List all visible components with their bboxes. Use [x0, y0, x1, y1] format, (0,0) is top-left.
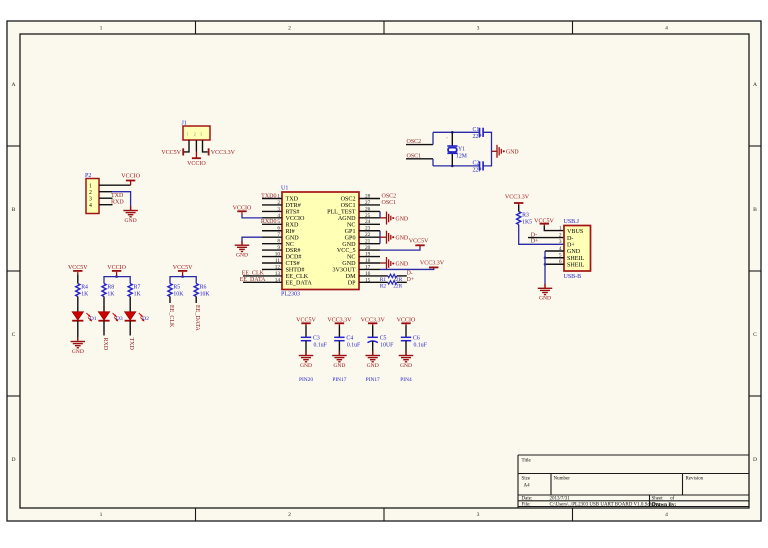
- wire R2 to D+: [397, 281, 407, 283]
- wire VCC3.3V to C4: [338, 323, 340, 325]
- svg-text:1K: 1K: [107, 291, 115, 297]
- svg-text:10UF: 10UF: [380, 343, 394, 349]
- svg-text:R5: R5: [173, 285, 180, 291]
- svg-text:10K: 10K: [200, 291, 211, 297]
- svg-text:R8: R8: [107, 285, 114, 291]
- wire R6 to EE_DATA: [195, 297, 197, 304]
- svg-text:3: 3: [277, 206, 280, 212]
- svg-text:RXD: RXD: [286, 222, 299, 228]
- power VCCIO (C6): [397, 318, 416, 324]
- wire USB pin2: [528, 237, 564, 239]
- pin 23: [359, 226, 380, 232]
- svg-text:VCC3.3V: VCC3.3V: [211, 150, 236, 156]
- svg-text:21: 21: [365, 239, 371, 245]
- svg-text:TXD: TXD: [286, 197, 299, 203]
- svg-text:VCC_5: VCC_5: [337, 248, 356, 254]
- svg-text:D+: D+: [567, 243, 575, 249]
- pin 9: [262, 245, 282, 251]
- pin 11: [262, 258, 282, 264]
- resistor R2: [380, 281, 403, 290]
- svg-text:EE_CLK: EE_CLK: [286, 274, 309, 280]
- svg-text:12: 12: [275, 264, 281, 270]
- power VCC3.3V (C4): [327, 318, 352, 324]
- svg-text:C2: C2: [473, 161, 480, 167]
- pin 27: [359, 200, 380, 206]
- svg-text:File:: File:: [522, 503, 531, 508]
- svg-text:8: 8: [277, 239, 280, 245]
- svg-text:DSR#: DSR#: [286, 248, 301, 254]
- LED D1: [72, 312, 97, 322]
- svg-text:D+: D+: [531, 239, 539, 245]
- ground (C3): [299, 351, 314, 369]
- svg-text:RTS#: RTS#: [286, 210, 300, 216]
- svg-text:PIN4: PIN4: [400, 377, 412, 383]
- op-amp U1 PL2303: [281, 186, 359, 298]
- svg-text:GND: GND: [342, 261, 356, 267]
- pin 1 (USB.J): [559, 226, 584, 235]
- power VCC3.3V (R3): [505, 194, 530, 203]
- pin 25: [359, 213, 380, 219]
- wire pin18 to ground: [380, 262, 387, 264]
- power VCC3.3V (J1): [209, 148, 236, 156]
- svg-text:1: 1: [89, 183, 92, 189]
- svg-text:GND: GND: [125, 218, 137, 224]
- wire J1 pin2 to VCCIO: [195, 140, 197, 152]
- wire R3 to D+: [519, 225, 564, 245]
- power VCC5V (pull-up branch): [173, 265, 193, 271]
- svg-text:C3: C3: [313, 336, 320, 342]
- resistor R5: [168, 284, 184, 298]
- wire VCC3.3V to C5: [372, 323, 374, 325]
- wire pins 26/25 to ground: [379, 211, 381, 217]
- svg-text:U1: U1: [281, 186, 288, 192]
- svg-text:1: 1: [100, 25, 103, 31]
- pin 6: [262, 226, 282, 232]
- svg-text:C4: C4: [346, 336, 353, 342]
- svg-text:PIN20: PIN20: [299, 377, 313, 383]
- svg-text:Title: Title: [522, 459, 532, 464]
- junction: [544, 256, 547, 259]
- wire gnd tap: [492, 150, 498, 152]
- wire J1 pin1 to VCC5V: [184, 140, 189, 152]
- wire VCC5V to R4: [77, 272, 79, 274]
- ground (U1 pins 23/22/21): [387, 231, 409, 244]
- svg-text:R2: R2: [380, 283, 387, 289]
- svg-text:RI#: RI#: [286, 229, 295, 235]
- svg-text:GND: GND: [367, 363, 379, 369]
- pin 5 (USB.J): [545, 253, 585, 262]
- pin 2: [262, 200, 282, 206]
- svg-text:Date:: Date:: [522, 497, 533, 502]
- pin 8: [262, 239, 282, 245]
- wire USB gnd rail: [544, 251, 546, 286]
- capacitor C3: [301, 336, 328, 349]
- resistor R6: [194, 284, 210, 298]
- svg-text:GND: GND: [342, 242, 356, 248]
- svg-text:22: 22: [365, 232, 371, 238]
- wire R5 to EE_CLK: [169, 297, 171, 304]
- svg-text:DM: DM: [346, 274, 356, 280]
- pin 18: [359, 258, 380, 264]
- svg-text:NC: NC: [347, 255, 355, 261]
- wire C4 to ground: [338, 341, 340, 355]
- wire R8 to D3: [103, 297, 105, 312]
- pin 22: [359, 232, 380, 238]
- svg-text:13: 13: [275, 271, 281, 277]
- wire P2 pin2 to GND: [99, 191, 112, 193]
- svg-text:PIN17: PIN17: [332, 377, 346, 383]
- wire crystal stems: [451, 132, 453, 146]
- svg-text:D1: D1: [90, 316, 97, 322]
- svg-text:EE_DATA: EE_DATA: [240, 277, 267, 283]
- pin 21: [359, 239, 380, 245]
- svg-text:20: 20: [365, 245, 371, 251]
- svg-text:OSC1: OSC1: [341, 203, 356, 209]
- svg-text:0.1uF: 0.1uF: [314, 343, 328, 349]
- junction: [181, 275, 184, 278]
- svg-text:GND: GND: [396, 262, 409, 268]
- wire VCC5V to C3: [305, 323, 307, 325]
- svg-text:10K: 10K: [173, 291, 184, 297]
- svg-text:D-: D-: [567, 236, 573, 242]
- svg-text:9: 9: [277, 245, 280, 251]
- svg-text:C:\Users\..\PL2303 USB UART BO: C:\Users\..\PL2303 USB UART BOARD V1.0.S…: [550, 503, 662, 508]
- svg-text:VCC5V: VCC5V: [161, 150, 181, 156]
- svg-text:SHEIL: SHEIL: [567, 256, 585, 262]
- svg-text:DTR#: DTR#: [286, 203, 301, 209]
- pin 3 (USB.J): [559, 239, 576, 248]
- svg-text:D: D: [11, 457, 15, 463]
- svg-text:VCCIO: VCCIO: [187, 161, 206, 167]
- svg-text:23: 23: [365, 226, 371, 232]
- svg-text:1: 1: [277, 193, 280, 199]
- svg-text:27: 27: [365, 200, 371, 206]
- svg-text:0.1uF: 0.1uF: [414, 343, 428, 349]
- svg-text:GND: GND: [236, 253, 248, 259]
- capacitor C6: [401, 336, 428, 349]
- svg-text:2: 2: [559, 233, 562, 239]
- svg-text:GND: GND: [333, 363, 345, 369]
- svg-text:3: 3: [559, 239, 562, 245]
- svg-text:D: D: [753, 457, 757, 463]
- svg-text:USB.J: USB.J: [564, 219, 580, 225]
- svg-text:EE_DATA: EE_DATA: [286, 280, 313, 286]
- svg-text:RXD: RXD: [102, 338, 108, 351]
- svg-text:A4: A4: [524, 484, 531, 489]
- svg-text:DCD#: DCD#: [286, 255, 302, 261]
- svg-text:SHEIL: SHEIL: [567, 263, 585, 269]
- svg-text:NC: NC: [286, 242, 294, 248]
- ground (D1): [71, 337, 86, 355]
- pin 12: [262, 264, 282, 270]
- svg-text:GND: GND: [72, 349, 84, 355]
- wire EE_CLK stub: [243, 275, 262, 277]
- svg-text:28: 28: [365, 193, 371, 199]
- pin 14: [262, 277, 282, 283]
- wire pin17 to VCC3.3V: [433, 267, 435, 269]
- svg-text:R6: R6: [200, 285, 207, 291]
- ground (C5): [365, 351, 380, 369]
- jumper J1: [182, 121, 211, 141]
- svg-text:14: 14: [275, 277, 281, 283]
- svg-text:3: 3: [477, 512, 480, 518]
- wire J1 pin3 to VCC3.3V: [203, 140, 208, 152]
- wire EE_DATA stub: [243, 281, 262, 283]
- svg-text:EE_CLK: EE_CLK: [242, 271, 265, 277]
- svg-text:GND: GND: [400, 363, 412, 369]
- pin 15: [359, 277, 380, 283]
- power VCCIO (U1 pin4): [233, 206, 252, 212]
- svg-text:B: B: [12, 207, 16, 213]
- capacitor C1: [473, 127, 484, 140]
- power VCC5V (C3): [296, 318, 316, 324]
- ground (C6): [399, 351, 414, 369]
- svg-text:12M: 12M: [456, 154, 467, 160]
- svg-text:USB-B: USB-B: [564, 274, 582, 280]
- svg-text:2013/7/31: 2013/7/31: [550, 497, 571, 502]
- capacitor C5: [368, 336, 395, 349]
- ground (crystal): [497, 145, 519, 158]
- svg-text:EE_DATA: EE_DATA: [194, 305, 200, 332]
- wire pin15: [380, 281, 388, 283]
- title block: [518, 455, 749, 508]
- svg-text:15: 15: [365, 277, 371, 283]
- svg-text:1K: 1K: [81, 291, 89, 297]
- ground (U1 pins 26/25): [387, 212, 409, 225]
- svg-text:R3: R3: [522, 213, 529, 219]
- svg-text:VCCIO: VCCIO: [121, 174, 140, 180]
- svg-text:VCCIO: VCCIO: [286, 216, 306, 222]
- svg-text:NC: NC: [347, 222, 355, 228]
- svg-text:22P: 22P: [473, 168, 482, 174]
- svg-text:AGND: AGND: [338, 216, 356, 222]
- svg-text:GND: GND: [286, 235, 300, 241]
- svg-text:OSC2: OSC2: [382, 193, 397, 199]
- pin 10: [262, 251, 282, 257]
- svg-text:3: 3: [200, 133, 202, 137]
- connector P2: [85, 173, 99, 214]
- pin 13: [262, 271, 282, 277]
- svg-text:7: 7: [277, 232, 280, 238]
- wire D1 to ground: [77, 321, 79, 340]
- ground (P2): [123, 206, 138, 224]
- svg-text:GP1: GP1: [345, 229, 356, 235]
- svg-text:1: 1: [187, 133, 189, 137]
- wire VCC5V rail: [182, 272, 184, 277]
- wire pin7 to ground: [242, 237, 262, 245]
- svg-text:2: 2: [89, 190, 92, 196]
- wire R7 to D2: [129, 297, 131, 312]
- svg-text:18: 18: [365, 258, 371, 264]
- resistor R7: [128, 284, 141, 298]
- svg-text:1K: 1K: [134, 291, 142, 297]
- svg-text:1: 1: [559, 226, 562, 232]
- resistor R1: [380, 274, 403, 283]
- svg-text:26: 26: [365, 206, 371, 212]
- svg-text:C5: C5: [380, 336, 387, 342]
- pin 2 (USB.J): [559, 233, 574, 242]
- wire OSC2: [406, 144, 433, 146]
- svg-text:TXD: TXD: [128, 338, 134, 351]
- pin 24: [359, 219, 380, 225]
- svg-text:GND: GND: [300, 363, 312, 369]
- svg-text:3: 3: [477, 25, 480, 31]
- svg-text:6: 6: [277, 226, 280, 232]
- svg-text:D-: D-: [407, 270, 413, 276]
- power VCC5V (D1 branch): [68, 265, 88, 271]
- svg-text:C1: C1: [473, 127, 480, 133]
- svg-text:5: 5: [277, 219, 280, 225]
- pin 6 (USB.J): [545, 259, 585, 268]
- junction: [115, 275, 118, 278]
- junction: [451, 165, 454, 168]
- svg-text:Drawn By:: Drawn By:: [652, 502, 677, 508]
- resistor R4: [76, 284, 89, 298]
- svg-text:GND: GND: [396, 216, 409, 222]
- power VCC5V (U1 pin20): [409, 238, 429, 245]
- svg-text:GND: GND: [567, 249, 581, 255]
- wire C5 to ground: [372, 341, 374, 355]
- power VCCIO (P2): [121, 174, 140, 181]
- ground (U1 pin18): [387, 257, 409, 270]
- junction: [451, 131, 454, 134]
- wire VCCIO rail: [116, 272, 118, 277]
- wire VCC3.3V to R3: [518, 203, 520, 205]
- svg-text:R4: R4: [81, 285, 88, 291]
- svg-text:10: 10: [275, 251, 281, 257]
- power VCCIO (LED branch): [107, 265, 126, 271]
- pin 3: [262, 206, 282, 212]
- resistor R8: [102, 284, 115, 298]
- svg-text:3: 3: [89, 196, 92, 202]
- ground (C4): [332, 351, 347, 369]
- power VCC3.3V (U1 pin17): [420, 261, 445, 268]
- ground (U1 pin7): [235, 241, 250, 259]
- pin 7: [262, 232, 282, 238]
- wire pin16: [380, 275, 388, 277]
- svg-text:RXD: RXD: [111, 199, 124, 205]
- svg-text:2: 2: [288, 512, 291, 518]
- svg-text:17: 17: [365, 264, 371, 270]
- svg-text:VCC3.3V: VCC3.3V: [505, 194, 530, 200]
- svg-text:16: 16: [365, 271, 371, 277]
- pin 28: [359, 193, 380, 199]
- wire VCCIO to pin4: [241, 212, 243, 214]
- LED D3: [98, 312, 123, 322]
- svg-text:TXD0: TXD0: [261, 193, 276, 199]
- svg-text:25: 25: [365, 213, 371, 219]
- svg-text:D3: D3: [116, 316, 123, 322]
- svg-text:A: A: [11, 82, 15, 88]
- wire P2 pin3 stub: [99, 197, 113, 199]
- svg-text:R7: R7: [134, 285, 141, 291]
- svg-text:SHTD#: SHTD#: [286, 268, 305, 274]
- svg-text:PL2303: PL2303: [281, 292, 300, 298]
- svg-text:24: 24: [365, 219, 371, 225]
- svg-text:B: B: [753, 207, 757, 213]
- svg-text:VBUS: VBUS: [567, 229, 584, 235]
- wire C3 to ground: [305, 341, 307, 355]
- svg-text:GND: GND: [506, 150, 519, 156]
- svg-text:OSC2: OSC2: [341, 197, 356, 203]
- ground (USB): [538, 284, 553, 302]
- power VCCIO (J1): [187, 158, 206, 167]
- pin 4 (USB.J): [545, 246, 581, 255]
- svg-text:Size: Size: [522, 477, 531, 482]
- svg-text:GND: GND: [539, 296, 551, 302]
- svg-text:19: 19: [365, 251, 371, 257]
- svg-text:A: A: [753, 82, 757, 88]
- pin 4: [262, 213, 282, 219]
- wire R4 to D1: [77, 297, 79, 312]
- svg-text:22R: 22R: [393, 283, 402, 289]
- svg-text:4: 4: [665, 512, 668, 518]
- connector USB.J: [564, 219, 591, 280]
- svg-text:VCC3.3V: VCC3.3V: [420, 261, 445, 267]
- svg-text:2: 2: [288, 25, 291, 31]
- pin 19: [359, 251, 380, 257]
- wire pin20 to VCC5V: [419, 245, 421, 247]
- svg-text:GND: GND: [396, 235, 409, 241]
- svg-text:C: C: [12, 332, 16, 338]
- svg-text:11: 11: [275, 258, 280, 264]
- pin 17: [359, 264, 380, 270]
- pin 26: [359, 206, 380, 212]
- svg-text:4: 4: [277, 213, 280, 219]
- wire C6 to ground: [405, 341, 407, 355]
- pin 1: [262, 193, 282, 199]
- wire D3 to RXD label: [103, 321, 105, 336]
- svg-text:4: 4: [665, 25, 668, 31]
- wire bottom rail: [433, 165, 479, 167]
- power VCC5V (USB): [534, 218, 554, 224]
- svg-text:EE_CLK: EE_CLK: [168, 305, 174, 328]
- svg-text:D+: D+: [407, 277, 414, 283]
- svg-text:GP0: GP0: [345, 235, 356, 241]
- wire OSC1: [406, 158, 433, 160]
- svg-text:4: 4: [89, 203, 92, 209]
- wire top rail: [433, 131, 479, 133]
- svg-text:PLL_TEST: PLL_TEST: [327, 210, 356, 216]
- svg-text:1K5: 1K5: [522, 219, 532, 225]
- svg-text:2: 2: [194, 133, 196, 137]
- wire P2 pin1 to VCCIO: [99, 184, 131, 186]
- svg-text:TXD: TXD: [111, 193, 124, 199]
- svg-text:0.1uF: 0.1uF: [347, 343, 361, 349]
- junction: [544, 263, 547, 266]
- svg-text:RXD0: RXD0: [261, 219, 277, 225]
- pin 5: [262, 219, 282, 225]
- pin 16: [359, 271, 380, 277]
- svg-text:DP: DP: [348, 280, 356, 286]
- LED D2: [125, 312, 150, 322]
- crystal Y1 12M: [446, 136, 467, 161]
- svg-text:OSC1: OSC1: [382, 200, 397, 206]
- svg-text:1: 1: [100, 512, 103, 518]
- svg-text:VCC5V: VCC5V: [409, 238, 429, 244]
- svg-text:PIN17: PIN17: [366, 377, 380, 383]
- wire D2 to TXD label: [129, 321, 131, 336]
- svg-text:D2: D2: [142, 316, 149, 322]
- wire pins 23/22/21 to ground: [379, 231, 381, 244]
- svg-text:Y1: Y1: [458, 146, 465, 152]
- wire P2 pin4 stub: [99, 204, 113, 206]
- svg-text:+: +: [446, 136, 448, 140]
- resistor R3: [517, 212, 533, 226]
- svg-text:2: 2: [277, 200, 280, 206]
- svg-text:Revision: Revision: [686, 477, 704, 482]
- wire VCC5V to USB pin1: [543, 224, 545, 226]
